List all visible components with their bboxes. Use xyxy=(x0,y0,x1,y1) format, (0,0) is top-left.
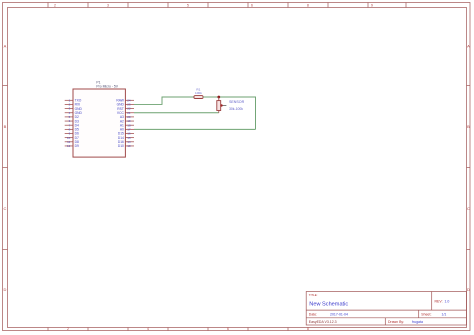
svg-text:6: 6 xyxy=(251,3,253,7)
svg-text:1.0: 1.0 xyxy=(445,299,450,303)
svg-text:8: 8 xyxy=(307,3,309,7)
svg-text:B: B xyxy=(4,124,7,129)
svg-text:Sheet:: Sheet: xyxy=(421,313,431,317)
svg-text:frugata: frugata xyxy=(412,320,423,324)
svg-text:100k: 100k xyxy=(195,91,202,95)
resistor R1 body xyxy=(194,96,203,99)
wire from P1 pin 17 A0 to right vertical segment xyxy=(134,128,256,130)
svg-text:EasyEDA V3.12.3: EasyEDA V3.12.3 xyxy=(309,320,337,324)
IC P1 right pin numbers 24-13 xyxy=(127,98,131,148)
svg-text:Date:: Date: xyxy=(309,313,317,317)
svg-text:13: 13 xyxy=(127,144,131,148)
sensor label SENSOR xyxy=(229,100,245,104)
svg-text:1/1: 1/1 xyxy=(442,313,447,317)
svg-text:2017-01-04: 2017-01-04 xyxy=(330,313,348,317)
IC P1 body xyxy=(73,89,125,157)
wire from resistor R1 right terminal to junction node xyxy=(203,96,219,98)
wire from junction node right then down to A0 net xyxy=(219,97,256,129)
sensor RV1 bottom lead wire xyxy=(218,111,220,113)
svg-text:C: C xyxy=(467,206,470,211)
svg-text:A: A xyxy=(467,44,470,49)
svg-text:D9: D9 xyxy=(75,144,79,148)
svg-text:SENSOR: SENSOR xyxy=(229,100,245,104)
IC P1 left pin stubs pins 1-12 xyxy=(65,100,73,146)
svg-text:New Schematic: New Schematic xyxy=(309,302,348,308)
wire from P1 pin 21 VCC to sensor bottom terminal xyxy=(134,112,219,114)
svg-text:D10: D10 xyxy=(118,144,124,148)
svg-text:4: 4 xyxy=(147,327,149,331)
svg-text:8: 8 xyxy=(307,327,309,331)
IC P1 left pin names TXO RXI GND GND D2-D9 xyxy=(75,99,83,149)
resistor R1 value label 100k xyxy=(195,91,202,95)
svg-text:12: 12 xyxy=(67,144,71,148)
svg-text:D: D xyxy=(4,287,7,292)
junction node at R1 / sensor / A0 net xyxy=(217,96,220,99)
svg-text:D: D xyxy=(467,287,470,292)
svg-text:9: 9 xyxy=(371,3,373,7)
svg-text:30k-100k: 30k-100k xyxy=(229,107,243,111)
svg-text:2: 2 xyxy=(54,3,56,7)
svg-text:5: 5 xyxy=(187,3,189,7)
svg-text:Drawn By:: Drawn By: xyxy=(388,320,404,324)
IC P1 value label Pro Micro - 5V xyxy=(96,84,118,88)
svg-text:2: 2 xyxy=(67,327,69,331)
sensor RV1 body (potentiometer style) xyxy=(217,101,221,111)
svg-text:Pro Micro - 5V: Pro Micro - 5V xyxy=(96,84,118,88)
svg-text:3: 3 xyxy=(107,3,109,7)
IC P1 left pin numbers 1-12 xyxy=(67,98,71,148)
wire from P1 pin 23 GND up to resistor R1 left terminal xyxy=(134,97,194,104)
svg-text:B: B xyxy=(467,124,470,129)
IC P1 reference designator P1 xyxy=(96,80,100,84)
svg-text:6: 6 xyxy=(227,327,229,331)
resistor R1 reference designator xyxy=(196,88,200,92)
IC P1 right pin stubs pins 24-13 xyxy=(125,100,134,146)
sensor value label 30k-100k xyxy=(229,107,243,111)
sensor RV1 top lead wire xyxy=(218,97,220,101)
IC P1 right pin names RAW GND RST VCC A3 A2 A1 A0 D15 D14 D16 D10 xyxy=(116,99,124,149)
svg-text:C: C xyxy=(4,206,7,211)
svg-text:REV:: REV: xyxy=(435,299,443,303)
svg-text:A: A xyxy=(4,44,7,49)
title block (sheet info) xyxy=(306,292,466,326)
sensor RV1 wiper arm xyxy=(220,104,226,106)
svg-text:TITLE:: TITLE: xyxy=(309,293,318,297)
